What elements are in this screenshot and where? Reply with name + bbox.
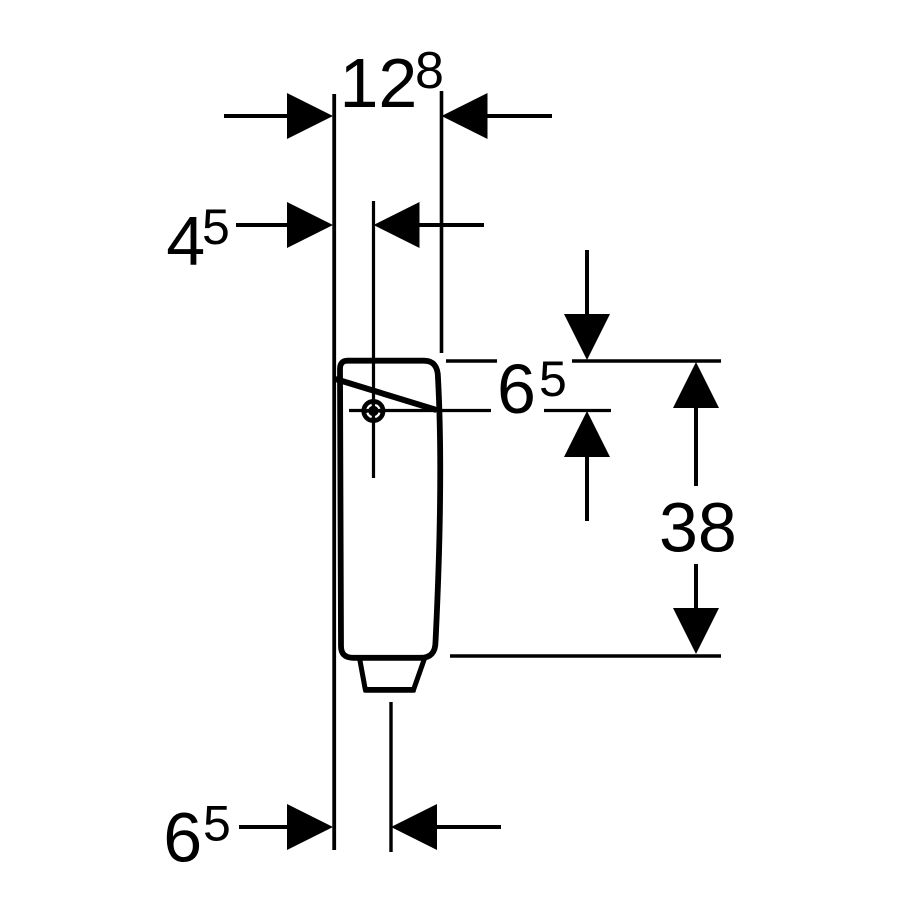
dim 6.5 right down arrow shaft — [585, 250, 589, 318]
dim 38 down arrow — [673, 608, 719, 654]
dim 6.5 right down arrow — [564, 314, 610, 360]
bottom extension line — [450, 654, 721, 658]
svg-text:6: 6 — [163, 798, 202, 876]
dim 6.5 right up arrow — [564, 411, 610, 457]
svg-text:6: 6 — [497, 350, 536, 428]
dim 6.5 right up arrow shaft — [585, 453, 589, 521]
svg-text:38: 38 — [659, 489, 737, 567]
screw level extension right segment — [544, 409, 611, 412]
dim 4.5 left arrow — [287, 202, 333, 248]
svg-text:8: 8 — [415, 42, 444, 100]
svg-text:5: 5 — [539, 351, 567, 407]
outlet axis line — [389, 702, 392, 852]
dim 6.5 bottom left shaft — [239, 825, 289, 829]
screw crosshair horizontal / extension line left segment — [349, 409, 491, 412]
svg-text:12: 12 — [340, 44, 418, 122]
screw axis line — [372, 201, 375, 478]
dim 38 lower shaft — [694, 564, 698, 612]
screw hole dashed inner circle — [367, 405, 379, 417]
svg-text:5: 5 — [203, 795, 231, 851]
outlet bottom edge — [365, 689, 414, 693]
dim 38 up arrow — [673, 362, 719, 408]
dim 38 upper shaft — [694, 404, 698, 486]
top extension line right segment — [572, 359, 721, 363]
top extension line left segment — [446, 359, 497, 363]
dim 4.5 right shaft — [418, 223, 485, 227]
dim 4.5 right arrow — [374, 202, 420, 248]
dim 4.5 left shaft — [236, 223, 289, 227]
svg-text:4: 4 — [166, 202, 205, 280]
extension line right of dim 12.8 — [440, 91, 444, 353]
svg-text:5: 5 — [202, 199, 230, 255]
cistern lid diagonal — [336, 379, 437, 410]
screw hole outer circle — [361, 399, 385, 423]
dim 6.5 bottom left arrow — [287, 804, 333, 850]
dim 6.5 bottom right shaft — [435, 825, 501, 829]
dim 12.8 left arrow — [287, 93, 333, 139]
cistern outlet spout — [360, 658, 425, 690]
cistern body outline — [340, 361, 440, 658]
dim 12.8 right shaft — [486, 114, 553, 118]
dim 12.8 left shaft — [224, 114, 289, 118]
dim 12.8 right arrow — [442, 93, 488, 139]
dim 6.5 bottom right arrow — [391, 804, 437, 850]
wall line — [332, 94, 336, 850]
